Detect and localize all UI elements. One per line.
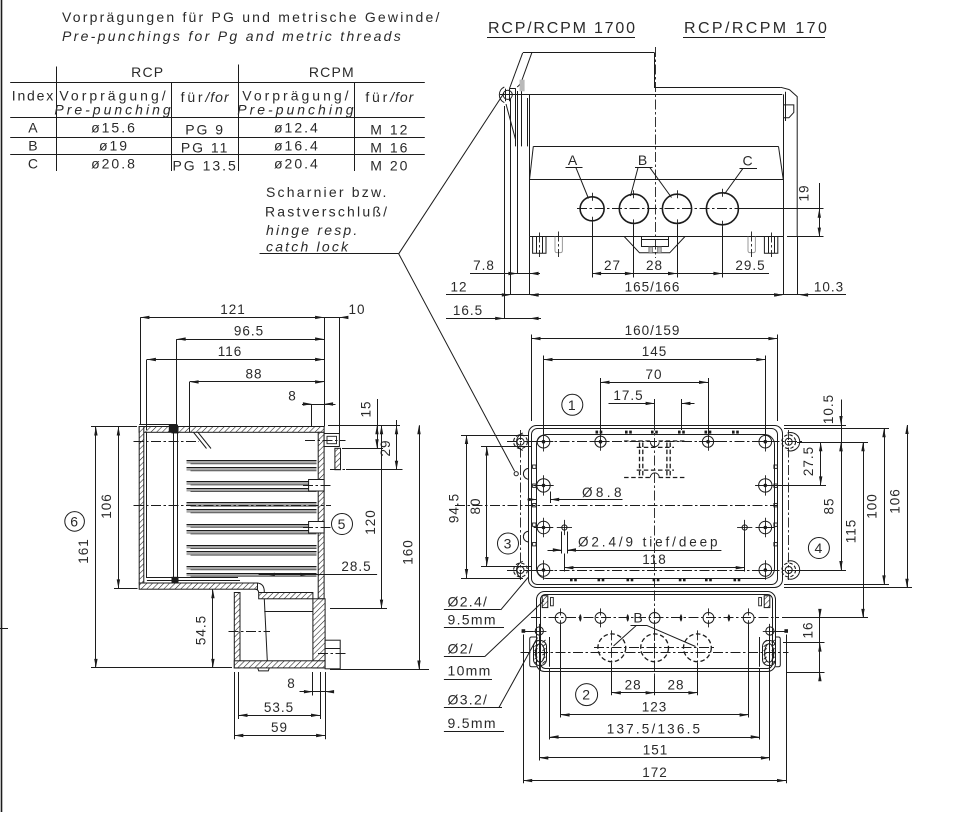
bottom view: outer rect xyxy=(537,592,776,672)
svg-text:Ø8.8: Ø8.8 xyxy=(582,485,625,500)
front view: body bottom edge xyxy=(530,236,784,238)
leader to latch of top view xyxy=(399,254,515,471)
front view: band right slant xyxy=(779,146,784,179)
svg-text:1: 1 xyxy=(568,397,577,413)
bottom view: right flange slot xyxy=(763,641,776,666)
top view: inner rect xyxy=(532,429,778,585)
dim 15 xyxy=(377,399,379,448)
dim 27 xyxy=(592,272,601,275)
svg-text:PG 13.5: PG 13.5 xyxy=(172,158,237,174)
svg-text:59: 59 xyxy=(271,720,288,735)
side view: interior rib slats xyxy=(187,461,317,464)
balloon label 5 xyxy=(332,514,353,535)
hinge pin side left xyxy=(505,89,507,102)
svg-text:17.5: 17.5 xyxy=(613,388,643,403)
svg-text:3: 3 xyxy=(504,536,513,552)
dim 151 xyxy=(539,757,770,759)
svg-text:Pre-punchings for Pg and metri: Pre-punchings for Pg and metric threads xyxy=(62,28,403,44)
side view: hinge knuckle 1 top right xyxy=(324,434,339,447)
dim 96.5 xyxy=(177,339,324,341)
svg-text:29.5: 29.5 xyxy=(735,258,765,273)
side view: lid joint vertical 1 xyxy=(173,432,175,583)
dim 161 xyxy=(95,427,97,668)
svg-text:28: 28 xyxy=(625,677,642,692)
dim o8.8 xyxy=(536,492,538,504)
svg-text:16: 16 xyxy=(800,621,815,638)
top view: corner post rings xyxy=(514,435,528,449)
front view: box top edge full width xyxy=(500,94,782,96)
svg-text:15: 15 xyxy=(359,400,374,417)
svg-text:ø15.6: ø15.6 xyxy=(91,120,137,136)
svg-text:10.3: 10.3 xyxy=(814,280,844,295)
hinge arm vertical outer xyxy=(515,88,517,146)
balloon label 1 xyxy=(562,394,583,415)
hinge arm vertical 3 xyxy=(527,98,529,146)
dim 28.5 xyxy=(259,574,378,576)
svg-text:RCP/RCPM 170: RCP/RCPM 170 xyxy=(684,20,829,37)
svg-text:88: 88 xyxy=(245,366,262,381)
svg-text:54.5: 54.5 xyxy=(193,615,208,645)
svg-text:C: C xyxy=(28,156,39,172)
dim 160 side xyxy=(419,425,421,669)
svg-text:C: C xyxy=(742,153,753,169)
svg-text:Rastverschluß/: Rastverschluß/ xyxy=(265,204,389,220)
top view: vertical centerline xyxy=(654,421,656,592)
catch outer edge xyxy=(789,90,797,237)
dim 106 side xyxy=(118,427,120,589)
svg-text:RCPM: RCPM xyxy=(309,64,355,80)
balloon label 2 xyxy=(576,684,598,706)
foot right small xyxy=(748,237,755,253)
svg-text:10mm: 10mm xyxy=(448,663,492,679)
dim 123 xyxy=(561,714,749,716)
dim 145 xyxy=(544,359,766,361)
dim 116 xyxy=(147,359,324,361)
dim 137.5/136.5 xyxy=(550,737,760,739)
hinge top step xyxy=(510,88,516,90)
side view: lid rim lip line xyxy=(139,424,176,426)
side view: left wall hatched xyxy=(139,427,144,584)
dim 16 xyxy=(783,642,825,644)
table column line after RCPM Vorpraegung xyxy=(354,83,356,171)
svg-text:2: 2 xyxy=(582,687,591,703)
foot left small xyxy=(555,237,562,253)
hinge outer slant xyxy=(510,53,523,89)
svg-text:B: B xyxy=(633,610,643,626)
bottom view: right flange tab xyxy=(776,637,781,667)
svg-text:165/166: 165/166 xyxy=(625,280,681,295)
bottom view: top right hinge pocket xyxy=(764,596,770,608)
svg-text:A: A xyxy=(568,152,578,168)
svg-text:53.5: 53.5 xyxy=(264,700,294,715)
svg-text:27: 27 xyxy=(604,258,621,273)
catch hook xyxy=(783,105,794,118)
pre-punch hole 1 xyxy=(580,197,604,221)
side view: joint seal bottom xyxy=(172,577,179,583)
top view: small deep holes xyxy=(562,525,567,530)
svg-text:ø20.4: ø20.4 xyxy=(274,156,320,172)
side view: lower box interior slant wall xyxy=(264,599,267,661)
svg-text:für/for: für/for xyxy=(365,89,414,105)
dim 165/166 xyxy=(530,293,539,296)
dim 29 xyxy=(396,420,398,470)
svg-text:ø16.4: ø16.4 xyxy=(274,138,320,154)
svg-text:12: 12 xyxy=(450,280,467,295)
svg-text:106: 106 xyxy=(888,488,903,514)
table row line B-C xyxy=(10,154,425,156)
side view: floor step down xyxy=(258,583,265,592)
svg-text:94.5: 94.5 xyxy=(447,493,462,523)
svg-text:137.5/136.5: 137.5/136.5 xyxy=(607,722,703,737)
dim 10 xyxy=(324,317,347,319)
top view: ring column centerlines xyxy=(520,430,522,582)
dim 118 xyxy=(564,554,566,572)
top view: row centerline bottom xyxy=(507,570,802,572)
svg-text:4: 4 xyxy=(815,540,824,556)
ext lines right of top view xyxy=(784,425,846,427)
hinge pin side right xyxy=(509,89,511,102)
side view: lid joint vertical 2 xyxy=(177,432,179,583)
bottom center tab xyxy=(624,237,685,253)
pre-punch hole 4 xyxy=(706,193,738,225)
side view: floor hatched band left part xyxy=(139,583,257,589)
latch arcs xyxy=(650,442,659,446)
front view vertical centerline xyxy=(655,47,657,258)
svg-text:145: 145 xyxy=(642,344,668,359)
foot left outer xyxy=(533,237,546,254)
bottom view: vertical centerline xyxy=(654,591,656,676)
front view: tall lid right edge at centerline xyxy=(654,52,656,87)
bottom view: flange pilot circles xyxy=(535,627,543,635)
dim 80 xyxy=(481,446,532,448)
svg-text:96.5: 96.5 xyxy=(234,324,264,339)
svg-text:8: 8 xyxy=(288,389,297,404)
svg-text:Pre-punching: Pre-punching xyxy=(237,102,356,118)
dim o2.4/9 tief/deep xyxy=(561,532,563,554)
side view: joint seal top xyxy=(172,427,179,433)
svg-text:für/for: für/for xyxy=(181,89,230,105)
extension lines holes down xyxy=(592,223,594,278)
bottom view: top left hinge pocket xyxy=(542,596,548,608)
svg-text:85: 85 xyxy=(822,497,837,514)
side view: horizontal centerline xyxy=(134,505,332,507)
side view: right wall hatched upper box xyxy=(318,432,324,599)
hinge pin boss arc xyxy=(499,87,504,103)
leader end dot xyxy=(514,472,518,476)
side view: lower box left wall xyxy=(234,593,240,668)
svg-text:Pre-punching: Pre-punching xyxy=(54,102,173,118)
hinge pin circle xyxy=(503,90,512,99)
ext lines bottom view xyxy=(523,635,525,784)
bottom view: left flange tab xyxy=(530,637,537,667)
svg-text:10: 10 xyxy=(348,302,365,317)
top view: left wall mortises xyxy=(533,465,536,468)
balloon label 4 xyxy=(808,538,829,559)
front view: tall lid top edge (RCP 1700) xyxy=(523,52,654,54)
svg-text:106: 106 xyxy=(99,493,114,519)
dim 100 xyxy=(884,428,886,584)
side view: right cable boss xyxy=(325,640,340,669)
side view: boss pocket right row3 xyxy=(309,522,325,534)
dim 172 xyxy=(523,780,786,782)
dim 88 xyxy=(190,381,325,383)
svg-text:8: 8 xyxy=(287,676,296,691)
top view: horizontal centerline xyxy=(455,505,778,507)
svg-text:A: A xyxy=(28,120,38,136)
catch top slant xyxy=(781,87,790,89)
hinge gray patch xyxy=(520,80,525,92)
table header line bottom xyxy=(10,117,425,119)
bottom view: outermost tabs (squares) xyxy=(522,629,526,633)
svg-text:hinge resp.: hinge resp. xyxy=(266,222,359,238)
front view: band left slant xyxy=(530,146,534,179)
bottom view: step verticals 137.5 feature xyxy=(549,637,551,667)
leader o3.2 xyxy=(499,638,538,708)
svg-text:116: 116 xyxy=(218,344,243,359)
balloon label 3 xyxy=(498,533,519,554)
table column line after Index xyxy=(56,67,58,172)
bottom view: flange centerline horizontal xyxy=(521,652,789,654)
dim 85 xyxy=(841,425,843,570)
side view: top wall hatched band xyxy=(139,427,324,433)
top view: vent ticks top edge xyxy=(596,431,599,434)
side view: lower box interior line xyxy=(264,611,313,613)
side view: floor hatched band right part (lower level) xyxy=(259,593,313,599)
svg-text:151: 151 xyxy=(643,742,669,757)
ext lines for top dims xyxy=(140,317,142,424)
pre-punch hole 3 xyxy=(662,194,691,223)
svg-text:M 20: M 20 xyxy=(370,158,409,174)
table column line after RCP Vorpraegung xyxy=(171,83,173,171)
front view: body right edge xyxy=(783,94,785,236)
side view: left wall inner face xyxy=(146,432,148,578)
dim 59 xyxy=(234,672,236,739)
svg-text:M 16: M 16 xyxy=(370,140,409,156)
dim 10.3 xyxy=(775,294,846,296)
svg-text:9.5mm: 9.5mm xyxy=(448,715,497,731)
dim 53.5 xyxy=(238,672,240,719)
dim 16.5 xyxy=(446,318,541,320)
top view left wall hinge knuckles xyxy=(523,468,528,479)
svg-text:80: 80 xyxy=(468,497,483,514)
svg-text:Vorprägungen für PG und metris: Vorprägungen für PG und metrische Gewind… xyxy=(62,9,442,25)
dim 17.5 xyxy=(609,403,655,405)
side view: floor inner lines xyxy=(147,577,238,579)
svg-text:Scharnier bzw.: Scharnier bzw. xyxy=(266,184,389,200)
dim 115 xyxy=(863,442,865,618)
bottom view: small holes row xyxy=(555,613,566,624)
dim 7.8 xyxy=(470,273,540,275)
front view: body left edge xyxy=(529,94,531,236)
dim 27.5 xyxy=(820,442,822,485)
svg-text:ø12.4: ø12.4 xyxy=(274,120,320,136)
svg-text:Ø2.4/: Ø2.4/ xyxy=(448,594,489,610)
svg-text:161: 161 xyxy=(76,538,91,564)
dim 8 bottom xyxy=(312,672,314,696)
side view: lower box right wall xyxy=(313,599,325,668)
svg-text:PG 11: PG 11 xyxy=(181,140,230,156)
dim 29.5 xyxy=(713,272,722,275)
svg-text:28.5: 28.5 xyxy=(341,559,371,574)
svg-text:B: B xyxy=(28,138,38,154)
dim 160/159 xyxy=(532,338,778,340)
top view: lid latch hidden detail xyxy=(624,441,686,478)
svg-text:160: 160 xyxy=(401,539,416,565)
top view: vent ticks bottom edge xyxy=(570,578,573,581)
dim 10.5 xyxy=(841,400,843,426)
dim 8 top xyxy=(302,404,336,406)
svg-text:9.5mm: 9.5mm xyxy=(448,612,497,628)
side view: top-left latch slants xyxy=(194,432,207,448)
svg-text:RCP: RCP xyxy=(131,64,164,80)
side view: hinge knuckle 2 xyxy=(335,448,341,469)
leader to hinge of front view xyxy=(399,93,504,254)
svg-text:5: 5 xyxy=(338,516,347,532)
svg-text:28: 28 xyxy=(667,677,684,692)
dim 106 top view xyxy=(907,425,909,588)
dim 19 vertical xyxy=(744,208,824,210)
svg-text:118: 118 xyxy=(642,552,667,567)
front view: band bottom edge xyxy=(530,179,784,181)
pre-punch hole 2 xyxy=(619,194,648,223)
leader o2.4 xyxy=(501,578,528,610)
balloon label 6 xyxy=(65,512,85,532)
svg-text:Index: Index xyxy=(12,88,55,104)
bottom view: holes row centerline xyxy=(531,617,779,619)
front view: lid skirt band top xyxy=(533,146,778,148)
bottom view: pre-punch dashed circles xyxy=(598,634,626,662)
side view: lower box bottom foot xyxy=(258,668,270,671)
foot right outer xyxy=(764,237,777,254)
side view: lower box bottom band xyxy=(234,661,325,668)
svg-text:RCP/RCPM 1700: RCP/RCPM 1700 xyxy=(488,20,637,37)
top view: right wall mortises xyxy=(774,465,777,468)
svg-text:70: 70 xyxy=(645,367,662,382)
svg-text:115: 115 xyxy=(844,519,859,544)
bottom view: inner rect xyxy=(541,595,773,669)
leader o2 xyxy=(485,601,544,657)
top view: corner lobes xyxy=(517,433,523,450)
dim 12 xyxy=(446,294,541,296)
dim 54.5 xyxy=(212,589,214,668)
bottom view: flange slot hatching xyxy=(535,640,538,643)
svg-text:Ø2/: Ø2/ xyxy=(448,641,474,657)
svg-text:ø20.8: ø20.8 xyxy=(91,156,137,172)
front view: short lid top edge (RCP 170) xyxy=(654,87,781,89)
svg-text:6: 6 xyxy=(70,513,79,529)
dim 94.5 xyxy=(461,435,529,437)
svg-text:27.5: 27.5 xyxy=(801,446,816,476)
side view: boss pocket right row2 xyxy=(309,480,325,492)
bottom view: lens dimples xyxy=(579,614,582,622)
dim 120 xyxy=(381,425,383,608)
sheet centering tick xyxy=(0,628,8,630)
side view: lid rim bead xyxy=(169,425,178,433)
svg-text:100: 100 xyxy=(865,493,880,519)
extension lines right side xyxy=(783,237,785,295)
svg-text:172: 172 xyxy=(642,765,668,780)
svg-text:19: 19 xyxy=(797,184,812,201)
side view: lower box hole centerline xyxy=(229,631,271,633)
dim 28 xyxy=(592,273,769,275)
dim 121 xyxy=(140,317,324,319)
svg-text:ø19: ø19 xyxy=(99,138,129,154)
svg-text:10.5: 10.5 xyxy=(821,394,836,424)
extension lines left side xyxy=(504,106,506,318)
holes centerline dash-dot xyxy=(577,208,746,210)
table column line after RCP fuer xyxy=(238,65,240,172)
svg-text:28: 28 xyxy=(646,258,663,273)
bottom view: left flange slot xyxy=(534,641,547,666)
hinge arm vertical inner xyxy=(521,86,523,147)
ext lines above top view xyxy=(531,335,533,422)
hinge inner contour xyxy=(517,53,532,87)
top view: interior wall rect xyxy=(537,435,775,579)
svg-text:catch lock: catch lock xyxy=(266,239,350,255)
top view: outer rect xyxy=(529,426,783,588)
svg-text:29: 29 xyxy=(378,439,393,456)
svg-text:7.8: 7.8 xyxy=(473,258,495,273)
svg-text:121: 121 xyxy=(220,302,246,317)
svg-text:123: 123 xyxy=(642,699,668,714)
top view: row centerline top xyxy=(507,441,802,443)
svg-text:M 12: M 12 xyxy=(370,122,409,138)
svg-text:16.5: 16.5 xyxy=(453,303,483,318)
note underline xyxy=(260,253,399,255)
side view: knuckle2 centerline xyxy=(330,469,346,471)
table header line top xyxy=(10,82,425,84)
svg-text:B: B xyxy=(638,152,648,168)
svg-text:160/159: 160/159 xyxy=(625,323,681,338)
dim 28 28 bottom xyxy=(612,692,655,694)
svg-text:Ø3.2/: Ø3.2/ xyxy=(448,692,489,708)
catch pin vertical xyxy=(785,92,787,121)
hinge lower slant xyxy=(506,104,515,139)
table row line A-B xyxy=(10,137,425,139)
sheet left border xyxy=(1,0,3,812)
dim 70 xyxy=(601,382,709,384)
top view: boss circles xyxy=(537,435,550,448)
bottom view: flange centerlines vertical xyxy=(540,626,542,671)
svg-text:PG 9: PG 9 xyxy=(185,122,225,138)
svg-text:Ø2.4/9 tief/deep: Ø2.4/9 tief/deep xyxy=(578,535,720,550)
svg-text:120: 120 xyxy=(363,509,378,535)
